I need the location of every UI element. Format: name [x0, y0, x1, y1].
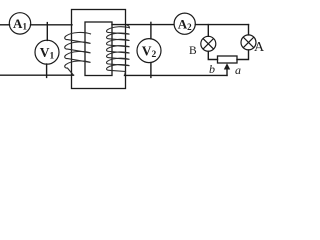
svg-text:B: B [189, 45, 197, 57]
voltmeter V1 [35, 40, 59, 64]
rheostat R body [218, 56, 238, 63]
transformer core outer rectangle [72, 10, 126, 89]
lamp A [241, 35, 256, 50]
ammeter A2 [174, 13, 195, 34]
wire A1 to transformer primary [31, 24, 73, 26]
wire top-left from edge to ammeter A1 [0, 24, 10, 26]
wire bottom-left rail [0, 74, 74, 76]
wire V1 bottom to bottom rail [46, 64, 48, 77]
wire A2 to top-right corner [195, 24, 248, 26]
wire branch down to lamp B [207, 25, 209, 37]
secondary winding (7 turns on right limb) [107, 25, 130, 76]
rheostat wiper arrow [224, 63, 230, 75]
wire lamp A to rheostat right end [237, 50, 249, 60]
primary winding (4 turns on left limb) [65, 32, 91, 75]
lamp B [201, 36, 216, 51]
wire corner down to lamp A [248, 25, 250, 35]
wire bottom-right rail [125, 74, 228, 76]
wire lamp B to rheostat left end [208, 51, 217, 59]
svg-text:A: A [254, 40, 265, 55]
svg-text:b: b [209, 62, 215, 76]
node V1 top junction [46, 23, 48, 41]
voltmeter V2 [137, 39, 161, 63]
svg-text:a: a [235, 63, 241, 77]
wire V2 bottom to bottom rail [150, 63, 152, 78]
ammeter A1 [9, 13, 30, 34]
transformer core inner rectangle [85, 22, 112, 76]
node V2 top junction [150, 22, 152, 38]
wire secondary top to ammeter A2 [112, 24, 174, 26]
